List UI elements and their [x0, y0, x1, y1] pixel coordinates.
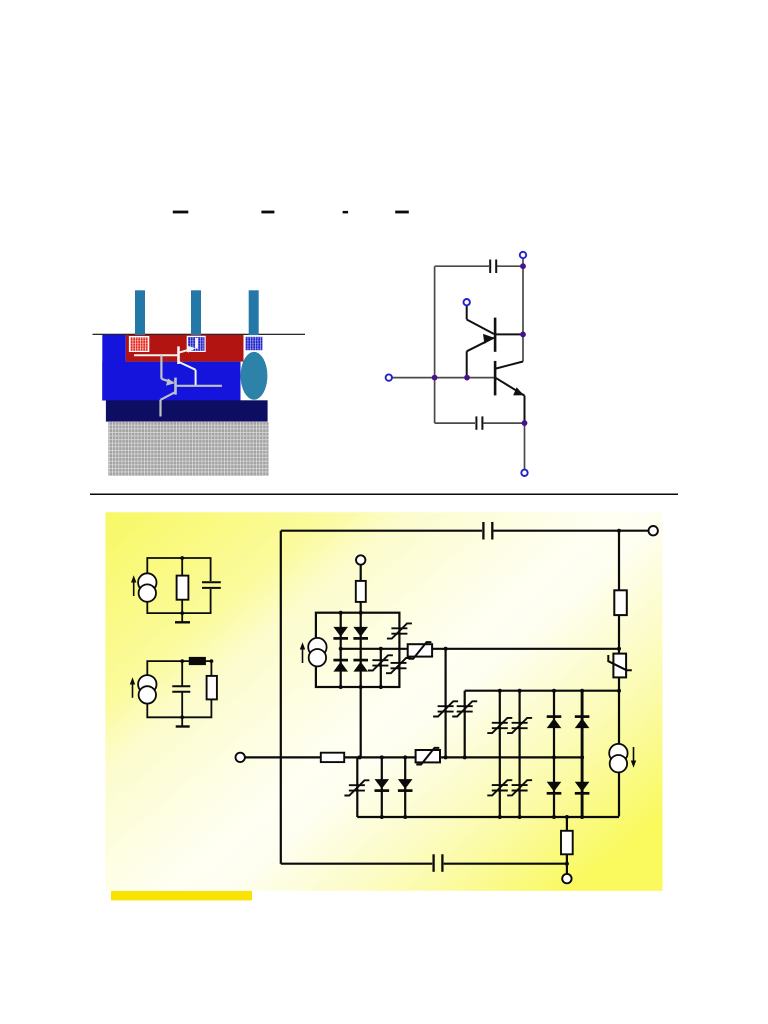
dot middle wire right	[617, 647, 621, 651]
dot right vertical top	[617, 529, 621, 533]
branch ncap right 1	[499, 691, 501, 817]
dot inner top wire right	[617, 689, 621, 693]
gate input row wire	[245, 756, 465, 758]
branch diode gate 2	[404, 757, 406, 817]
diode right branch1 lower (down)	[547, 782, 562, 794]
diode right branch2 lower (down)	[575, 782, 590, 794]
title underline dash 4	[395, 211, 409, 214]
pnp emitter arrow	[483, 334, 494, 344]
dots gate row	[358, 755, 362, 759]
ncap right branch1 upper	[487, 718, 512, 733]
middle wire from bridge to right vertical	[399, 648, 619, 650]
diode gate branch 2	[398, 779, 413, 791]
cross-section: p-well blue body	[102, 335, 240, 401]
gray pnp emitter arrow	[166, 378, 175, 385]
terminal gate left	[236, 753, 245, 762]
node dot gate left	[432, 375, 438, 381]
bridge outer box	[316, 613, 400, 687]
ncap mid pair right	[452, 701, 477, 716]
bridge ncap right edge upper	[387, 623, 412, 638]
main current source right	[609, 744, 627, 773]
bridge left branch vertical	[340, 613, 342, 687]
ncap right branch1 lower	[487, 780, 512, 795]
cross-section: red n-layer	[126, 335, 244, 362]
diode right branch1 upper (up)	[547, 717, 562, 729]
output resistor	[561, 831, 573, 855]
bridge arrow	[302, 648, 304, 663]
terminal collector top right	[649, 526, 658, 535]
circuit1 node top	[180, 556, 184, 560]
junction dots main circuit	[339, 529, 621, 866]
bridge mid branch vertical down to gate row	[360, 613, 362, 758]
bridge inner branch ncap vertical	[380, 649, 382, 687]
right vertical wire top segment	[618, 531, 620, 817]
circuit2 resistor	[207, 676, 217, 700]
circuit1 arrow	[133, 581, 135, 596]
circuit2 node top mid	[180, 659, 184, 663]
title underline dash 3	[343, 211, 349, 214]
outer left vertical wire	[280, 531, 282, 864]
varistor 3 right vertical	[613, 654, 626, 678]
circuit1 current source	[138, 573, 156, 602]
dots bridge top	[339, 611, 343, 615]
yellow gradient panel	[105, 512, 662, 891]
terminal gate left	[386, 374, 392, 380]
vertical from middle wire down to gate row	[445, 649, 447, 758]
terminal base mid	[464, 299, 470, 305]
white npn emitter arrow	[187, 346, 196, 353]
circuit1 node bottom	[180, 611, 184, 615]
contact bar 3	[249, 290, 259, 335]
circuit2 loop wires	[147, 661, 211, 717]
branch ncap right 2	[518, 691, 520, 817]
circuit1 resistor	[177, 576, 189, 600]
right vertical resistor	[614, 590, 627, 615]
bridge top resistor	[356, 581, 366, 602]
gate terminal branch resistor wires	[360, 565, 362, 613]
dots bridge middle	[339, 647, 343, 651]
node dot emitter join	[464, 375, 470, 381]
dots inner bottom wire	[380, 815, 384, 819]
white npn transistor symbol	[134, 338, 197, 386]
top capacitor plates	[482, 522, 484, 540]
bridge diode top-left	[333, 627, 348, 639]
circuit2 node top right	[210, 659, 214, 663]
section separator line	[90, 493, 678, 495]
circuit1 ground bar	[175, 621, 190, 623]
terminal collector top	[520, 252, 526, 258]
circuit2 node bottom	[180, 715, 184, 719]
varistor 1 mid wire	[408, 642, 432, 659]
circuit2 inductor black box	[189, 657, 206, 665]
node dot base pnp	[520, 332, 526, 338]
branch ncap gate left	[356, 757, 358, 817]
bottom capacitor plates	[432, 854, 434, 872]
cross-section: buffer navy layer	[106, 400, 268, 421]
gate row resistor	[321, 753, 344, 762]
gray pnp transistor symbol	[161, 355, 222, 416]
wire right vertical	[522, 266, 524, 361]
npn emitter arrow	[513, 387, 524, 395]
dots gate row extension	[552, 755, 556, 759]
dots bridge bottom	[339, 685, 343, 689]
pnp transistor Q1	[494, 318, 497, 352]
circuit2 ground bar	[176, 725, 190, 727]
wire top horizontal	[435, 265, 489, 267]
cross-section: right blue hatched box	[245, 336, 263, 351]
ncap mid pair left	[433, 701, 458, 716]
outer top wire with gap for cap	[281, 530, 649, 532]
node dot top	[520, 263, 526, 269]
ncap right branch2 upper	[507, 718, 532, 733]
contact bar 1	[135, 290, 145, 335]
terminal emitter bottom	[562, 874, 571, 883]
diode right branch2 upper (up)	[575, 717, 590, 729]
wire bottom terminal stub	[524, 423, 526, 469]
vertical inner left corner down to gate row	[464, 691, 466, 758]
circuit2 arrow	[132, 683, 134, 698]
bridge ncap inner branch	[368, 655, 393, 670]
varistor 2 gate row	[416, 748, 440, 765]
inner top wire	[465, 690, 619, 692]
diode gate branch 1	[375, 779, 390, 791]
cross-section: middle blue hatched box	[187, 336, 205, 351]
dot output junction	[565, 862, 569, 866]
cross-section: substrate gray hatched	[108, 422, 268, 476]
bridge diode bottom-left	[333, 660, 348, 672]
cross-section: teal ellipse region	[241, 352, 268, 400]
branch diode gate 1	[381, 757, 383, 817]
circuit1 capacitor plates	[202, 581, 221, 583]
ncap gate branch	[344, 780, 369, 795]
resistor output branch	[566, 817, 568, 874]
title underline dash 2	[261, 211, 274, 214]
ncap right branch2 lower	[507, 780, 532, 795]
surface line over cross-section	[93, 333, 306, 335]
circuit1 mid branch	[181, 558, 183, 622]
yellow footer bar	[111, 891, 252, 900]
wire top terminal stub	[522, 259, 524, 267]
dot middle wire at 445	[444, 647, 448, 651]
cross-section: red hatched emitter box	[130, 337, 149, 352]
capacitor cge plates	[489, 260, 491, 274]
title underline dash 1	[173, 211, 189, 214]
dots inner top wire	[498, 689, 502, 693]
outer bottom wire with gap for cap	[281, 863, 567, 865]
terminal bridge top	[356, 555, 365, 564]
bridge middle wire	[341, 648, 400, 650]
npn transistor Q2	[494, 361, 497, 396]
circuit1 loop wires	[147, 558, 210, 613]
circuit2 current source	[138, 675, 156, 704]
gate row extension wire to diode branches	[465, 756, 582, 758]
equivalent 2-transistor circuit	[393, 259, 525, 470]
capacitor cgc plates	[475, 416, 477, 429]
wire left vertical	[434, 266, 436, 423]
bridge ncap right edge lower	[386, 658, 411, 673]
inner bottom wire	[357, 816, 619, 818]
bridge diode top-mid	[353, 627, 368, 639]
terminal emitter bottom	[521, 470, 527, 476]
wire bottom horizontal	[435, 422, 475, 424]
branch diode right 1	[553, 691, 555, 817]
circuit2 mid branch	[181, 661, 183, 726]
main current source arrow (down)	[633, 747, 635, 762]
circuit2 capacitor plates	[172, 685, 190, 687]
bridge current source	[308, 638, 326, 667]
bridge diode bottom-mid	[353, 660, 368, 672]
node dot bottom	[522, 420, 528, 426]
wire left terminal to base node	[393, 377, 495, 379]
contact bar 2	[191, 290, 201, 335]
branch diode right 2 (thick)	[581, 691, 584, 817]
